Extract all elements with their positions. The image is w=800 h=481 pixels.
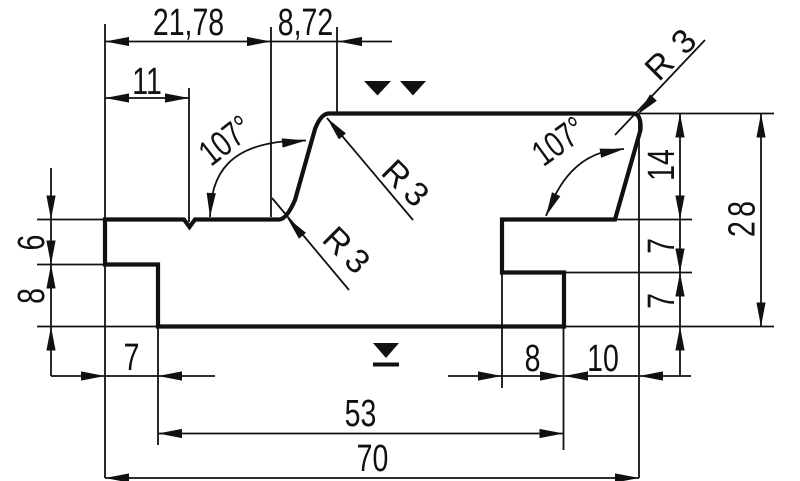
text 107 left xyxy=(191,107,260,173)
svg-text:8: 8 xyxy=(525,338,541,380)
extension line x=271 xyxy=(270,27,272,217)
extension line x=189 (11 dim, to notch) xyxy=(188,88,190,222)
svg-text:21,78: 21,78 xyxy=(153,2,224,44)
text 11 xyxy=(132,61,162,103)
R3 leader upper left chamfer xyxy=(327,118,413,220)
svg-text:70: 70 xyxy=(357,438,389,480)
svg-text:11: 11 xyxy=(132,61,162,103)
text 8,72 xyxy=(278,2,333,44)
text 28 xyxy=(722,201,764,237)
surface finish triangle 1 xyxy=(364,81,391,96)
dimension line 11 xyxy=(105,97,189,99)
svg-text:7: 7 xyxy=(641,293,683,309)
dimension line 70 xyxy=(105,477,639,479)
text 8 xyxy=(525,338,541,380)
text 10 xyxy=(587,338,619,380)
svg-text:8,72: 8,72 xyxy=(278,2,333,44)
right 107 degree arc xyxy=(546,149,624,216)
text 107 right xyxy=(524,108,593,174)
profile outline xyxy=(105,114,641,327)
text R 3 lower xyxy=(315,219,377,281)
svg-text:14: 14 xyxy=(641,149,683,181)
svg-text:7: 7 xyxy=(124,337,140,379)
svg-text:7: 7 xyxy=(641,238,683,254)
text R 3 upper xyxy=(374,152,436,214)
extension line x=337 xyxy=(336,27,338,113)
left vertical dimension line 6 / 8 xyxy=(50,168,52,376)
extension x=158 below xyxy=(157,327,159,446)
right extension lines xyxy=(640,113,774,115)
R3 leader right chamfer xyxy=(615,40,705,135)
dimension line 28 xyxy=(760,114,762,327)
extension x=502 below xyxy=(501,273,503,389)
svg-text:6: 6 xyxy=(11,235,53,251)
text 8 xyxy=(11,288,53,304)
text 53 xyxy=(345,393,377,435)
text 7 lower right xyxy=(641,293,683,309)
extension line x=105 xyxy=(104,24,106,220)
datum symbol bottom (triangle with underline) xyxy=(373,343,399,358)
left extension lines y=219, y=265, y=326.5 xyxy=(37,219,105,221)
R3 leader lower left chamfer xyxy=(272,198,349,290)
dimension line 14 / 7 / 7 xyxy=(679,114,681,377)
text 21,78 xyxy=(153,2,224,44)
surface finish triangle 2 xyxy=(400,81,426,96)
text 7 upper right xyxy=(641,238,683,254)
extension x=561.5 below xyxy=(563,327,565,451)
dimension line 21,78 / 8,72 xyxy=(105,41,392,43)
svg-text:10: 10 xyxy=(587,338,619,380)
left 107 degree arc xyxy=(210,140,306,217)
svg-text:53: 53 xyxy=(345,393,377,435)
text 14 xyxy=(641,149,683,181)
text 70 xyxy=(357,438,389,480)
extension x=639 (from top corner to bottom) xyxy=(638,113,640,478)
svg-text:8: 8 xyxy=(11,288,53,304)
dimension line 8 / 10 bottom right xyxy=(448,375,691,377)
dimension line 53 xyxy=(158,433,564,435)
text R 3 right xyxy=(638,22,704,88)
text 7 xyxy=(124,337,140,379)
text 6 xyxy=(11,235,53,251)
dimension line 7 bottom-left xyxy=(51,375,215,377)
